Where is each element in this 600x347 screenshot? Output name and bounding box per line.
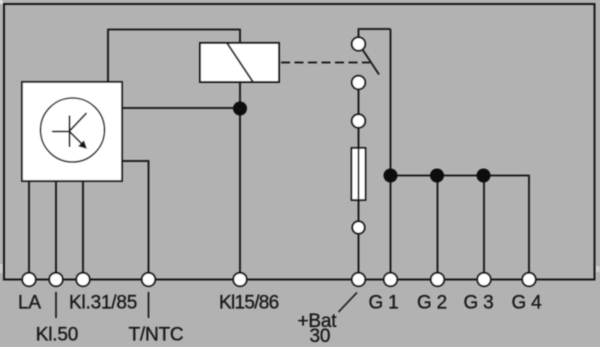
scan artifact left edge near bus (0, 264, 2, 273)
svg-text:Kl15/86: Kl15/86 (219, 293, 279, 314)
junction node G2 rail (430, 169, 444, 183)
svg-text:30: 30 (310, 326, 331, 347)
relay contact switch blade (363, 50, 380, 75)
wire: control unit to T/NTC terminal (122, 161, 149, 280)
terminal Kl.50 (49, 273, 62, 286)
wire: switch middle to lower contact (358, 89, 360, 115)
terminal LA (22, 273, 35, 286)
svg-text:Kl.31/85: Kl.31/85 (69, 293, 137, 314)
terminal Kl.31/85 (76, 273, 89, 286)
terminal G1 (384, 273, 397, 286)
svg-text:G 2: G 2 (417, 293, 447, 314)
wire: G2 branch (437, 176, 439, 280)
wire: switch top contact to G1 rail (359, 29, 391, 38)
svg-text:G 3: G 3 (464, 293, 494, 314)
switch contact (lower) (352, 114, 365, 127)
terminal G2 (431, 273, 444, 286)
junction node G1 rail (384, 169, 398, 183)
switch contact (middle) (352, 76, 365, 89)
wire: control unit to Kl.31/85 terminal (82, 181, 84, 280)
wire: control unit to LA terminal (28, 181, 30, 280)
wire: T/NTC label leader line (148, 292, 150, 318)
scan artifact right edge near bus (597, 266, 600, 272)
connector node above +Bat (352, 221, 364, 233)
svg-text:LA: LA (18, 293, 41, 314)
wire: control unit top to relay coil top (108, 30, 240, 83)
transistor symbol inside U1 (52, 113, 87, 148)
wire: glow plug distribution rail (391, 176, 530, 280)
terminal G4 (522, 273, 535, 286)
wire: G3 branch (483, 176, 485, 280)
wire: G1 rail vertical (390, 29, 392, 280)
wire: +Bat label leader line (339, 293, 358, 313)
switch contact (top) (352, 37, 365, 50)
wire: Kl.50 label leader line (55, 292, 57, 318)
svg-text:G 1: G 1 (369, 293, 399, 314)
junction node: relay coil / control output / Kl15/86 (233, 102, 247, 116)
svg-text:G 4: G 4 (512, 293, 543, 314)
scan artifact top-left corner (0, 0, 3, 4)
control unit housing outline (4, 4, 595, 280)
wire: control unit output to relay junction (122, 107, 240, 109)
svg-text:T/NTC: T/NTC (129, 325, 184, 346)
fuse F1 (352, 148, 366, 200)
terminal G3 (477, 273, 490, 286)
wire: lower contact to fuse (358, 127, 360, 148)
wire: dashed relay actuation link (281, 62, 370, 64)
svg-text:Kl.50: Kl.50 (36, 325, 78, 346)
terminal T/NTC (142, 273, 155, 286)
wire: +Bat connector to +Bat 30 terminal (358, 234, 360, 280)
terminal +Bat 30 (352, 273, 365, 286)
terminal Kl15/86 (233, 273, 246, 286)
wire: fuse to +Bat connector (358, 200, 360, 222)
control unit U1 (glow time control unit) (22, 82, 122, 181)
wire: control unit to Kl.50 terminal (55, 181, 57, 280)
wire: relay coil bottom to Kl15/86 terminal (239, 82, 241, 280)
relay coil K1 (200, 43, 279, 82)
junction node G3 rail (477, 169, 491, 183)
